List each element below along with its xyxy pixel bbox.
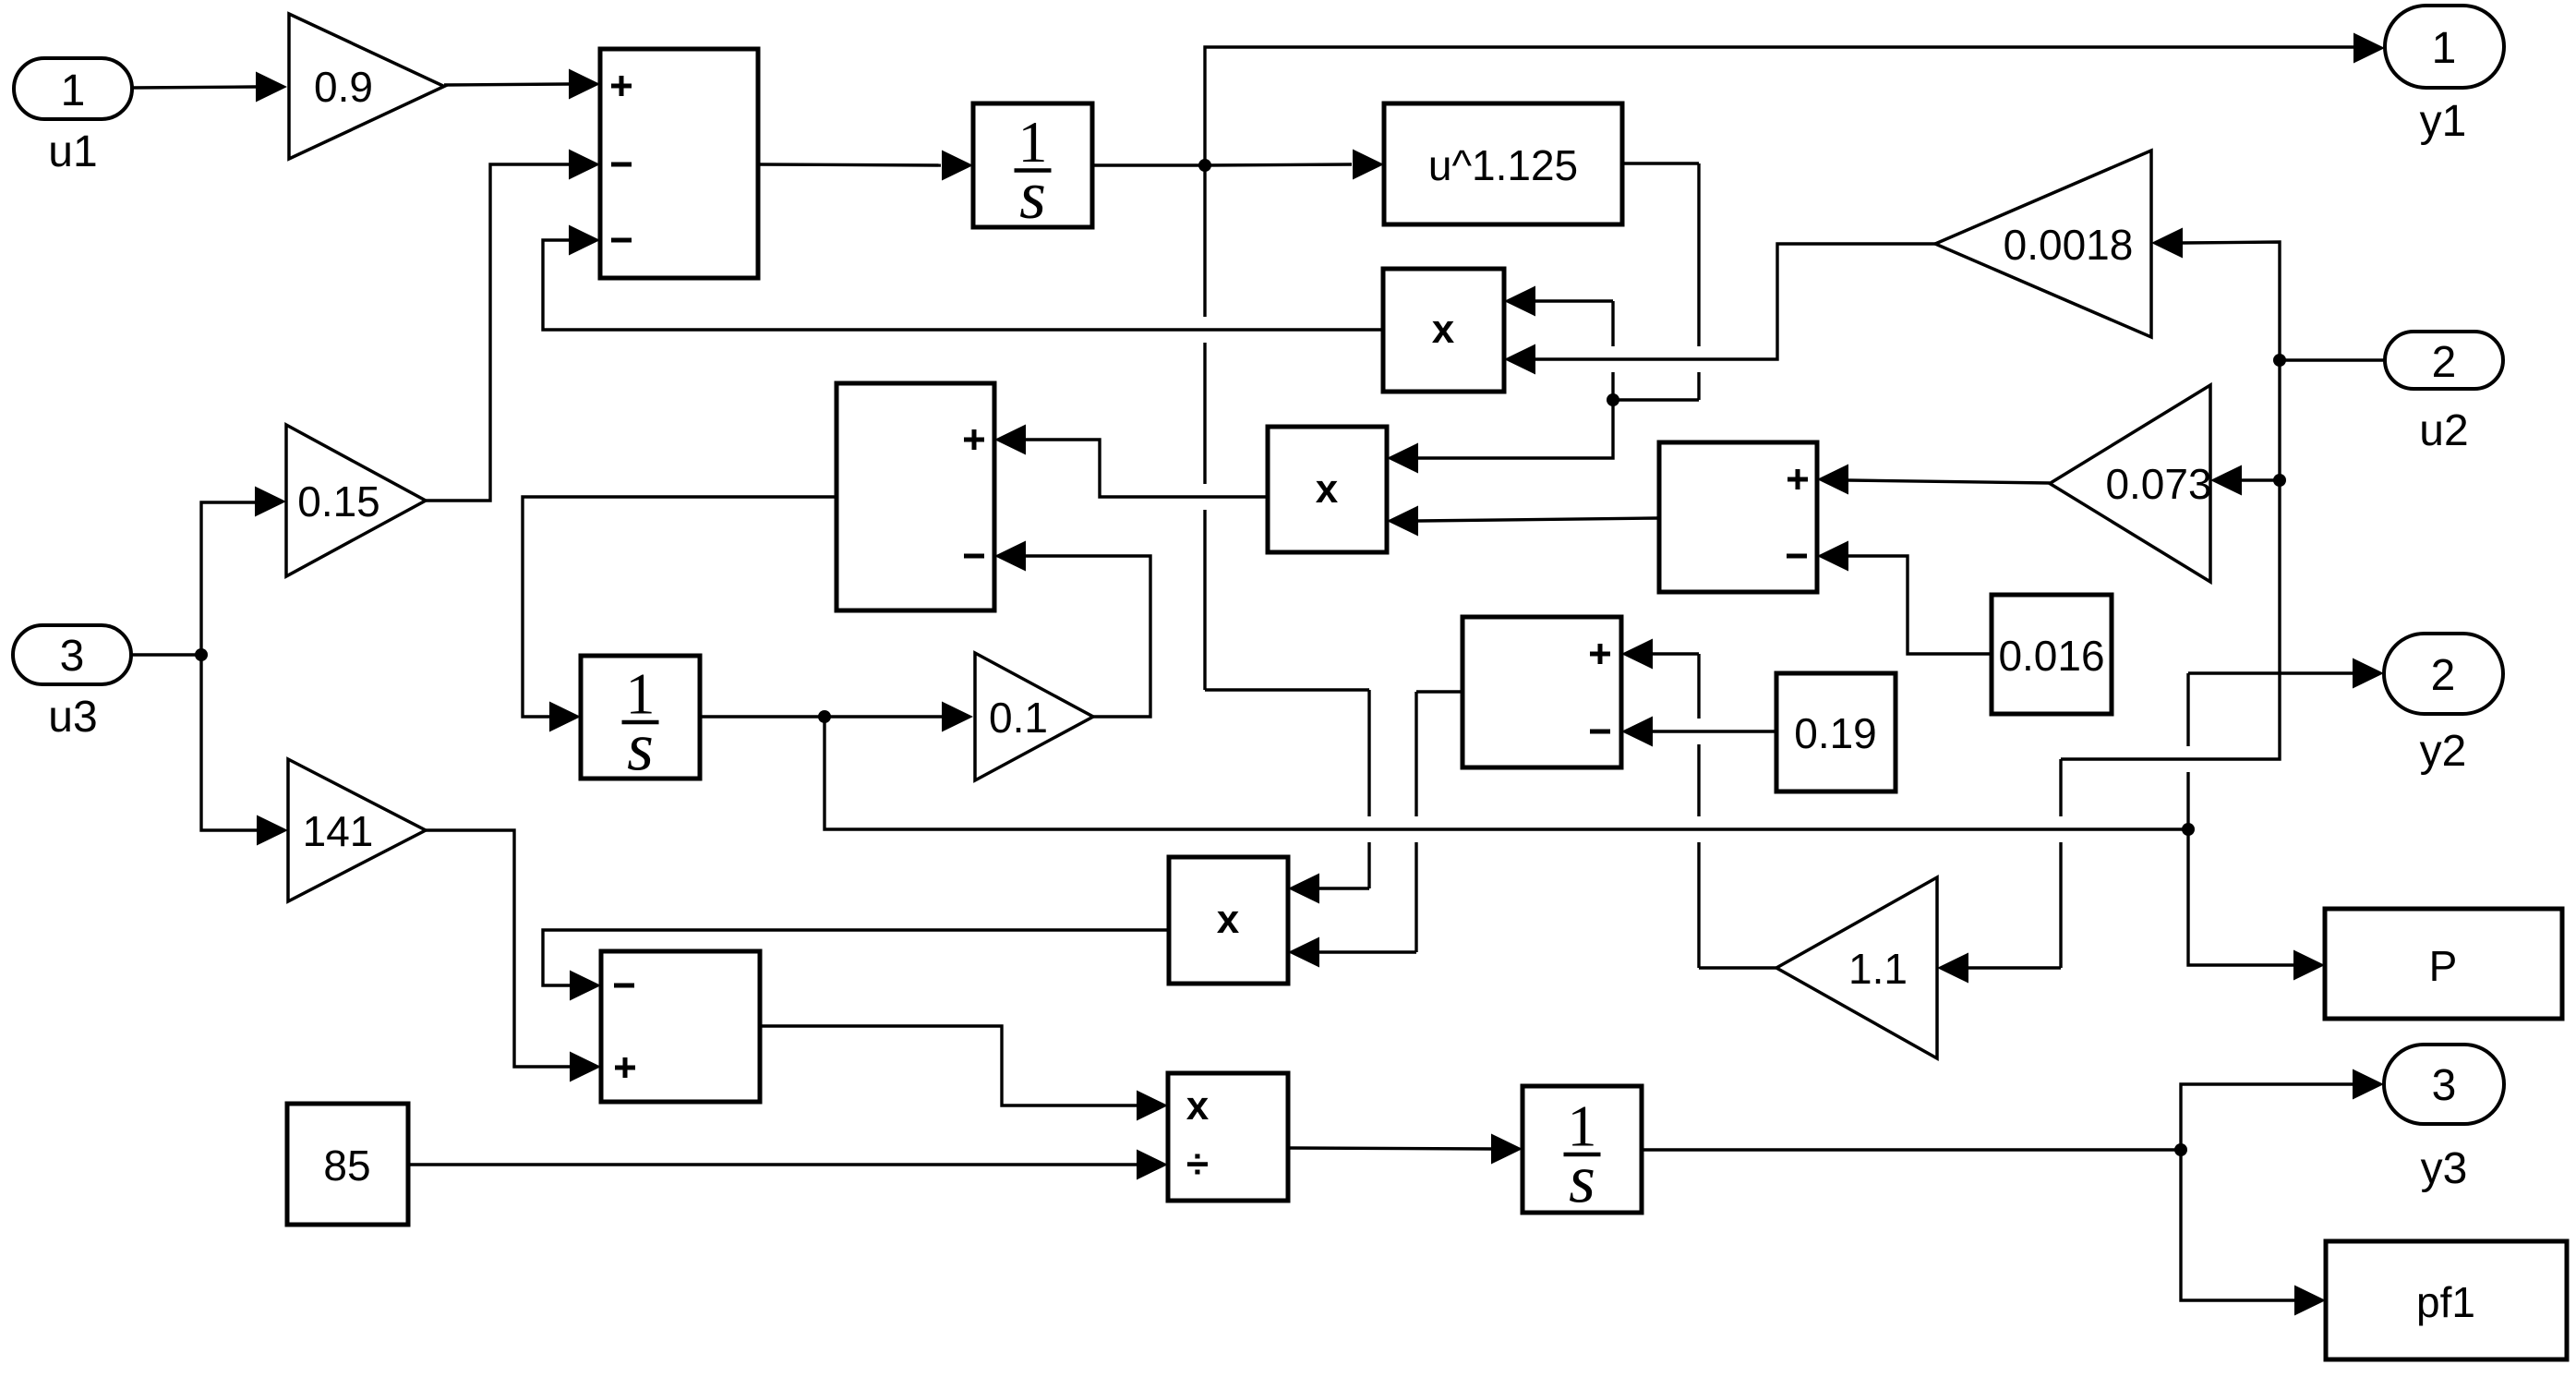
wire sum S2 to integrator I2 [523, 497, 837, 732]
gain 0.073 [2050, 385, 2212, 582]
wire u2 branch to gain 0.073 [2210, 360, 2286, 496]
wire junction to outport y3 [2181, 1069, 2384, 1151]
gain 141 [288, 759, 426, 901]
svg-text:y3: y3 [2421, 1144, 2468, 1193]
sum S3 [1659, 442, 1817, 592]
product P5 (x /) [1168, 1073, 1288, 1201]
svg-text:P: P [2429, 942, 2458, 990]
wire junction to scope pf1 [2181, 1150, 2326, 1316]
wire product P5 to integrator I3 [1288, 1134, 1523, 1165]
svg-text:85: 85 [323, 1141, 370, 1190]
wire integrator I2 long feedback [825, 717, 2195, 836]
wire junction to outport y1 [1205, 33, 2385, 166]
wire constant 85 to product P5 second input [408, 1150, 1168, 1180]
outport 2 (y2) [2384, 634, 2503, 776]
svg-text:1: 1 [2432, 24, 2457, 73]
outport 3 (y3) [2384, 1045, 2504, 1193]
wire junction to u^1.125 [1205, 150, 1384, 180]
wire gain 1.1 to sum S5 + input [1621, 639, 1776, 969]
svg-text:u1: u1 [48, 127, 97, 176]
wire integrator I2 output junction [700, 710, 831, 723]
svg-text:2: 2 [2431, 651, 2456, 700]
wire sum S3 to product P2 second input [1387, 506, 1659, 537]
svg-text:pf1: pf1 [2416, 1278, 2475, 1326]
wire u2 to gain 0.0018 [2151, 228, 2385, 368]
svg-text:0.073: 0.073 [2105, 460, 2211, 508]
svg-text:0.19: 0.19 [1794, 709, 1877, 757]
sum S4 [601, 951, 760, 1102]
integrator I3 (1/s) [1523, 1086, 1642, 1218]
wire u3 junction [131, 648, 208, 661]
wire u3 to gain 141 [201, 655, 288, 846]
gain 0.15 [286, 425, 426, 576]
outport 1 (y1) [2385, 6, 2504, 146]
inport 3 (u3) [13, 625, 131, 742]
gain 0.0018 [1935, 151, 2151, 337]
wire u3 to gain 0.15 [201, 487, 286, 656]
wire gain 0.0018 to product P1 second input [1504, 244, 1935, 375]
gain 0.1 [975, 653, 1093, 780]
math function u^1.125 [1384, 103, 1622, 224]
integrator I1 (1/s) [973, 103, 1092, 234]
svg-text:0.1: 0.1 [989, 694, 1048, 742]
wire u2 branch to gain 1.1 [1937, 480, 2280, 984]
svg-text:0.016: 0.016 [1998, 632, 2104, 680]
wire sum S4 to product P5 first input [760, 1026, 1168, 1121]
svg-text:x: x [1432, 307, 1455, 352]
constant 0.016 [1992, 595, 2112, 714]
inport 1 (u1) [14, 58, 132, 176]
sum S1 [600, 49, 758, 278]
wire gain 141 to sum S4 + input [426, 830, 601, 1082]
wire junction to product P4 first input [1205, 165, 1369, 904]
wire sum S1 to integrator I1 [758, 151, 973, 181]
svg-text:3: 3 [60, 632, 85, 681]
scope pf1 [2326, 1241, 2567, 1359]
wire u^1.125 to junction A [1607, 163, 1699, 406]
sum S5 [1463, 617, 1621, 767]
svg-text:x: x [1186, 1083, 1210, 1129]
wire junction A to product P2 first input [1387, 400, 1613, 474]
wire constant 0.19 to sum S5 - input [1621, 717, 1776, 747]
integrator I2 (1/s) [581, 656, 700, 786]
svg-text:s: s [627, 710, 654, 786]
svg-text:s: s [1019, 158, 1046, 234]
sum S2 [837, 383, 994, 610]
product P4 (x) [1169, 857, 1288, 984]
svg-text:1: 1 [61, 66, 86, 115]
svg-text:0.0018: 0.0018 [2004, 221, 2134, 269]
svg-text:3: 3 [2432, 1061, 2457, 1110]
wire gain 0.9 to sum S1 + input [444, 69, 600, 100]
svg-text:1.1: 1.1 [1848, 945, 1908, 993]
wire junction to gain 0.1 [825, 702, 973, 732]
product P1 (x) [1383, 269, 1504, 392]
inport 2 (u2) [2385, 332, 2503, 455]
svg-text:y1: y1 [2420, 97, 2467, 146]
wire sum S5 to product P4 second input [1288, 692, 1463, 968]
svg-text:÷: ÷ [1186, 1141, 1209, 1187]
svg-text:0.9: 0.9 [314, 63, 373, 111]
scope P [2325, 909, 2562, 1019]
wire gain 0.1 to sum S2 - input [994, 541, 1150, 718]
svg-text:0.15: 0.15 [297, 477, 380, 525]
wire product P2 to sum S2 + input [994, 425, 1268, 498]
gain 0.9 [289, 14, 444, 159]
svg-text:y2: y2 [2420, 727, 2467, 776]
wire u1 to gain 0.9 [132, 72, 287, 103]
product P2 (x) [1268, 427, 1387, 552]
constant 0.19 [1776, 673, 1896, 791]
svg-text:2: 2 [2432, 338, 2457, 387]
svg-text:s: s [1569, 1142, 1595, 1218]
gain 1.1 [1776, 877, 1937, 1058]
constant 85 [287, 1104, 408, 1225]
wire product P4 to sum S4 - input [543, 930, 1169, 1001]
wire integrator I1 output junction [1092, 159, 1211, 172]
wire junction A to product P1 first input [1504, 286, 1613, 401]
svg-text:u2: u2 [2419, 406, 2468, 455]
wire constant 0.016 to sum S3 - input [1817, 541, 1992, 655]
wire integrator I3 output junction [1642, 1143, 2187, 1156]
wire long feedback to scope P [2188, 829, 2325, 981]
svg-text:u3: u3 [48, 693, 97, 742]
wire product P1 to sum S1 second - input [543, 225, 1383, 331]
svg-text:x: x [1316, 466, 1339, 512]
svg-text:x: x [1217, 897, 1240, 942]
svg-text:141: 141 [303, 807, 374, 855]
svg-text:u^1.125: u^1.125 [1428, 141, 1578, 189]
wire gain 0.073 to sum S3 + input [1817, 465, 2050, 495]
wire gain 0.15 to sum S1 - input [426, 150, 600, 501]
wire long feedback to outport y2 [2188, 658, 2384, 830]
